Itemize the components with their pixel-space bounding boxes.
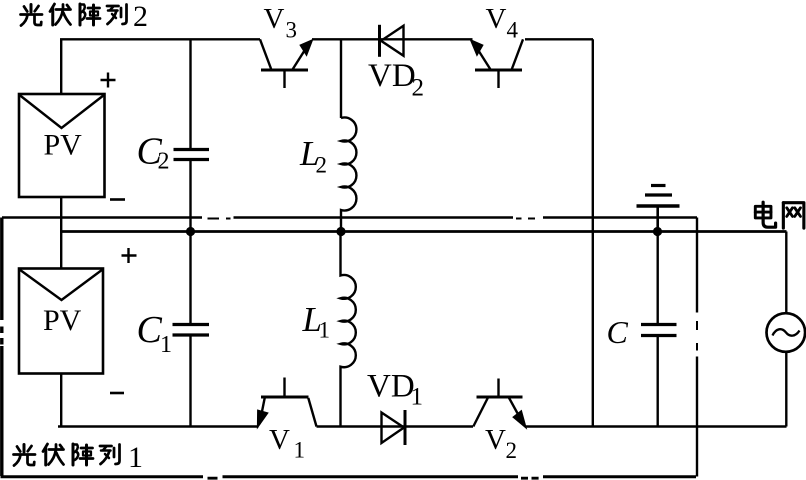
- inductor L2: [341, 117, 356, 231]
- label V2: [485, 424, 517, 463]
- svg-text:3: 3: [286, 18, 298, 43]
- return loop right wire with break marks: [696, 218, 698, 477]
- svg-text:PV: PV: [43, 304, 82, 337]
- svg-text:V: V: [485, 424, 506, 456]
- text 光伏阵列2: [21, 0, 149, 33]
- transistor V2: [473, 379, 525, 428]
- label PV (PV1): [43, 304, 82, 337]
- svg-text:VD: VD: [367, 369, 415, 405]
- wire grid branch vertical bottom: [785, 352, 787, 427]
- wire grid branch vertical top: [785, 232, 787, 314]
- svg-text:VD: VD: [368, 58, 416, 94]
- svg-text:V: V: [486, 3, 507, 35]
- label V3: [264, 3, 298, 43]
- minus sign PV2: [110, 198, 125, 201]
- svg-text:C: C: [137, 309, 163, 351]
- transistor V1: [258, 378, 317, 427]
- label VD2: [368, 58, 424, 102]
- junction node at C1/C2: [186, 227, 195, 236]
- earth symbol at neutral: [637, 186, 680, 232]
- svg-text:V: V: [269, 424, 290, 456]
- svg-text:2: 2: [506, 438, 518, 463]
- capacitor C1: [173, 232, 210, 427]
- transistor V4: [471, 39, 523, 88]
- wire top bus right segment: [525, 38, 593, 40]
- wire top bus mid segment: [312, 38, 473, 40]
- transistor V3: [260, 39, 312, 88]
- wire right branch vertical: [592, 39, 594, 426]
- label VD1: [367, 369, 423, 411]
- wire top bus left segment: [60, 38, 260, 40]
- svg-text:2: 2: [133, 0, 148, 33]
- svg-text:2: 2: [316, 153, 328, 178]
- svg-text:2: 2: [412, 75, 425, 102]
- minus sign PV1: [110, 392, 124, 395]
- return loop left wire with break marks: [0, 218, 3, 477]
- label C: [607, 314, 629, 350]
- label L1: [302, 300, 331, 343]
- svg-text:C: C: [607, 314, 629, 350]
- diode VD2: [380, 25, 404, 57]
- PV array box PV1: [19, 269, 103, 374]
- wire mid neutral bus: [61, 230, 786, 233]
- wire PV2 top lead: [60, 39, 62, 94]
- plus sign PV2: [101, 73, 116, 88]
- capacitor C2: [174, 39, 210, 231]
- label 电网 (grid): [755, 202, 804, 228]
- return loop top wire with break marks: [2, 218, 697, 219]
- wire PV1 bottom lead: [60, 374, 62, 427]
- plus sign PV1: [122, 248, 137, 263]
- inductor L1: [341, 232, 356, 427]
- label V1: [269, 424, 305, 463]
- label C2: [137, 131, 170, 175]
- wire bottom bus: [58, 425, 787, 428]
- svg-text:1: 1: [160, 332, 172, 358]
- junction node at L1/L2: [336, 227, 345, 236]
- svg-text:1: 1: [411, 384, 424, 411]
- wire L2 top lead: [340, 39, 342, 118]
- AC source (grid): [767, 313, 806, 352]
- label V4: [486, 3, 519, 43]
- svg-text:1: 1: [128, 441, 143, 474]
- junction node at grid filter C: [653, 227, 662, 236]
- capacitor C (grid filter): [641, 232, 677, 427]
- label PV (PV2): [44, 129, 83, 162]
- diode VD1: [382, 410, 406, 445]
- svg-text:1: 1: [294, 438, 306, 463]
- label L2: [299, 134, 327, 178]
- svg-text:4: 4: [507, 18, 519, 43]
- text 光伏阵列1: [14, 441, 144, 474]
- svg-text:1: 1: [319, 318, 331, 343]
- label C1: [137, 309, 173, 358]
- wire PV2 bottom lead: [60, 197, 62, 232]
- svg-text:2: 2: [158, 149, 170, 175]
- return loop bottom wire with break marks: [1, 477, 697, 478]
- PV array box PV2: [19, 94, 105, 197]
- svg-text:V: V: [264, 3, 285, 35]
- wire PV1 top lead: [60, 232, 62, 269]
- svg-text:PV: PV: [44, 129, 83, 162]
